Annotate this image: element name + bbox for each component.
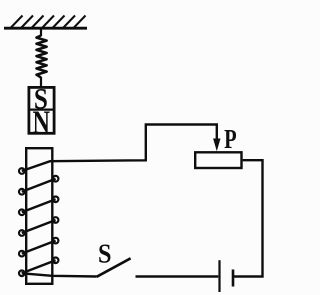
diagonal turns: [22, 179, 56, 192]
label P: [224, 124, 237, 154]
wire: coil top lead to wiper arrow: [22, 125, 217, 172]
wire: ceiling to spring: [40, 28, 42, 36]
long plate: [218, 260, 220, 292]
potentiometer P (resistor box): [195, 152, 241, 168]
switch S blade: [97, 258, 131, 277]
wire: spring to magnet: [40, 77, 42, 87]
ceiling support line: [4, 27, 87, 30]
short plate: [232, 270, 235, 287]
label S (switch): [98, 238, 112, 268]
svg-text:P: P: [224, 124, 237, 154]
battery cell: [220, 260, 234, 292]
right bumps: [53, 176, 59, 182]
coil winding: [19, 168, 58, 276]
magnet bar (outer box): [28, 87, 55, 133]
wire: coil bottom lead to switch pivot: [22, 273, 97, 276]
magnet N pole label: [33, 105, 51, 141]
wire: potentiometer right terminal down to battery: [234, 160, 263, 276]
wire: battery to switch: [136, 275, 219, 277]
svg-text:S: S: [98, 238, 112, 268]
wiper arrowhead: [213, 139, 220, 152]
coil former (rectangle): [26, 148, 52, 284]
ceiling hatching: [11, 16, 86, 29]
svg-text:N: N: [33, 105, 51, 141]
spring: [37, 36, 47, 78]
left loops: [19, 168, 25, 174]
magnet S pole label: [34, 82, 48, 115]
